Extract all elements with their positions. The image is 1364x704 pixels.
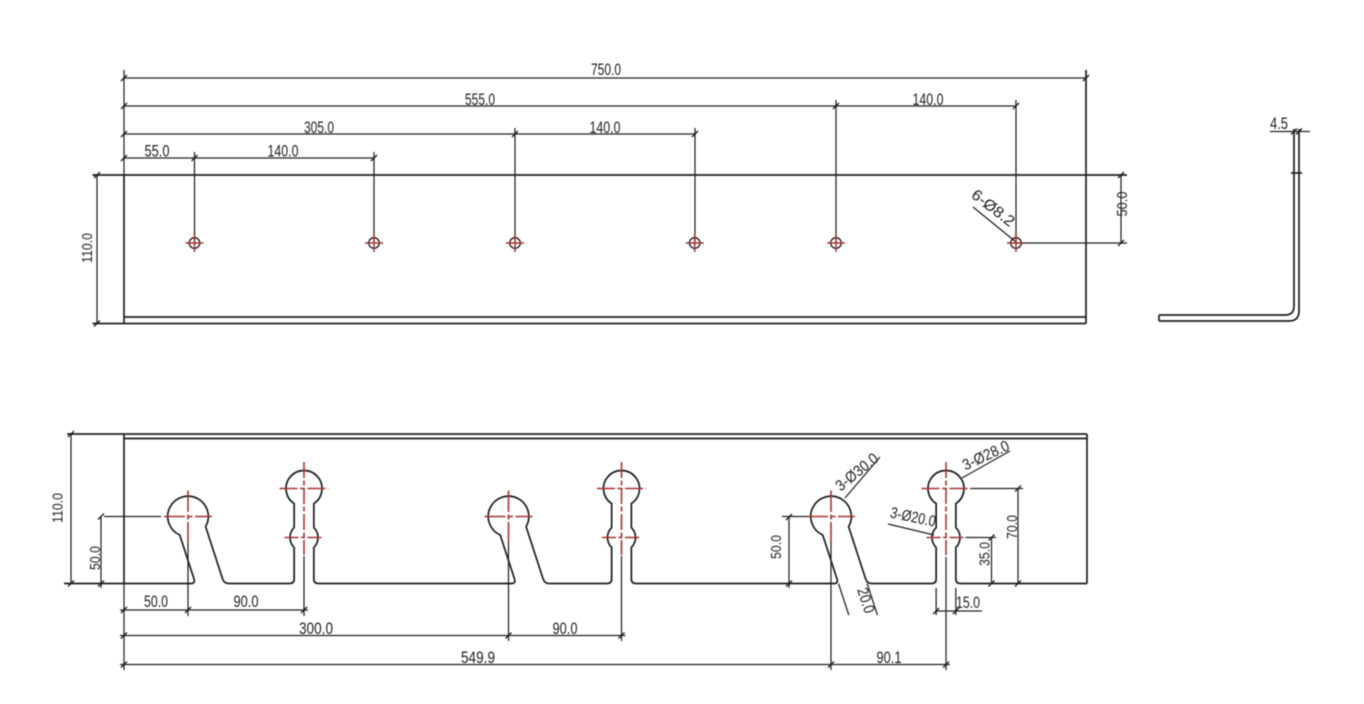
svg-text:50.0: 50.0 bbox=[87, 546, 104, 570]
svg-text:50.0: 50.0 bbox=[144, 592, 168, 611]
svg-text:3-Ø20.0: 3-Ø20.0 bbox=[889, 505, 938, 531]
svg-text:549.9: 549.9 bbox=[461, 648, 495, 667]
svg-text:35.0: 35.0 bbox=[977, 542, 994, 566]
svg-text:55.0: 55.0 bbox=[145, 142, 170, 161]
svg-text:70.0: 70.0 bbox=[1004, 515, 1021, 539]
svg-text:50.0: 50.0 bbox=[1114, 192, 1131, 217]
svg-text:90.0: 90.0 bbox=[234, 592, 259, 611]
svg-text:90.0: 90.0 bbox=[553, 619, 578, 638]
svg-text:50.0: 50.0 bbox=[768, 535, 785, 559]
svg-text:20.0: 20.0 bbox=[853, 586, 877, 616]
svg-text:750.0: 750.0 bbox=[591, 60, 621, 79]
svg-text:140.0: 140.0 bbox=[590, 118, 621, 137]
svg-text:555.0: 555.0 bbox=[465, 90, 495, 109]
svg-text:90.1: 90.1 bbox=[877, 648, 902, 667]
svg-text:140.0: 140.0 bbox=[268, 142, 299, 161]
svg-text:3-Ø30.0: 3-Ø30.0 bbox=[832, 450, 882, 495]
svg-text:140.0: 140.0 bbox=[913, 90, 944, 109]
svg-text:110.0: 110.0 bbox=[79, 233, 96, 263]
svg-text:305.0: 305.0 bbox=[304, 118, 334, 137]
svg-text:15.0: 15.0 bbox=[956, 593, 980, 612]
svg-text:300.0: 300.0 bbox=[299, 619, 333, 638]
svg-text:110.0: 110.0 bbox=[50, 493, 67, 523]
svg-text:3-Ø28.0: 3-Ø28.0 bbox=[960, 438, 1013, 475]
svg-text:4.5: 4.5 bbox=[1270, 114, 1288, 133]
